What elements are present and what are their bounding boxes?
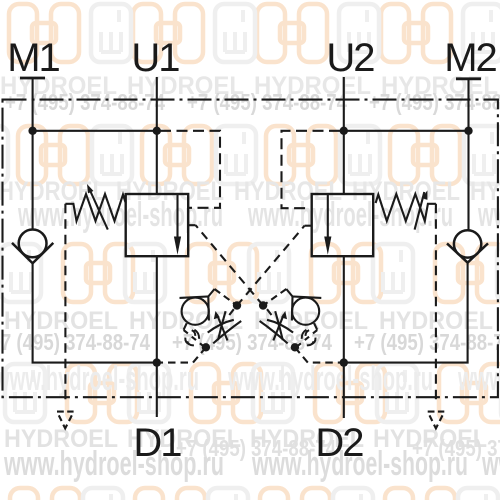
node S2 upper [259, 301, 267, 309]
wire CV2 to bottom [344, 263, 468, 363]
shuttle S2 orifice arc d [307, 341, 314, 345]
svg-text:www.hydroel-shop.ru: www.hydroel-shop.ru [457, 360, 500, 398]
shuttle S1 dashed path to node [184, 330, 204, 347]
wire top rail M1-U1 [33, 130, 157, 132]
shuttle S1 metering line [218, 311, 226, 340]
shuttle S2 seat [292, 297, 321, 321]
valve V1 spring [65, 194, 125, 221]
shuttle S2 orifice arc c [311, 338, 315, 345]
port bar M2 [456, 77, 481, 80]
pilot link S1 to D1 (dashed) [157, 347, 206, 362]
shuttle S2 node stub [267, 309, 272, 315]
shuttle S2 seat tail [286, 289, 292, 297]
wire top rail U2-M2 [344, 130, 469, 132]
wire CV1 to bottom [33, 263, 157, 362]
shuttle S2 pilot dash to node [263, 289, 286, 306]
valve V1 drain line (dashed) [64, 204, 66, 404]
valve V2 spring [376, 194, 436, 221]
wire U2 vertical upper [343, 77, 345, 194]
svg-text:D2: D2 [315, 421, 363, 465]
shuttle S1 orifice arc b [194, 330, 199, 339]
check valve CV2 seat [447, 243, 488, 262]
shuttle S2 restrictor arc b [260, 321, 288, 343]
svg-text:+7 (495) 374-88-74: +7 (495) 374-88-74 [0, 329, 150, 355]
port bar M1 [20, 77, 45, 80]
valve V1 spring adjust arrow [87, 184, 108, 230]
shuttle S1 restrictor arc a [208, 320, 234, 333]
svg-text:M1: M1 [7, 36, 59, 80]
valve V2 drain line (dashed) [435, 204, 437, 404]
junction D2 [340, 358, 348, 366]
valve V2 flow arrow [324, 194, 331, 255]
shuttle S1 orifice arc d [187, 341, 194, 345]
wire U1 vertical upper [156, 77, 158, 194]
svg-text:+7 (495) 374-88-74: +7 (495) 374-88-74 [354, 329, 500, 355]
shuttle S1 orifice arc a [192, 330, 196, 336]
junction M1 top [28, 127, 36, 135]
valve V2 spring adjust arrow [415, 190, 428, 229]
valve V1 drain triangle [57, 412, 74, 429]
check valve CV2 ball [454, 230, 481, 257]
valve V1 pilot stub [188, 224, 195, 226]
junction D1 [153, 358, 161, 366]
node S2 lower [291, 343, 299, 351]
wire U2 vertical lower [343, 256, 345, 418]
pilot line U1 to valve V1 (dashed) [160, 131, 220, 208]
counterbalance valve V1 body [126, 194, 189, 256]
svg-text:U2: U2 [326, 36, 374, 80]
shuttle S2 ball [292, 298, 319, 325]
shuttle S2 body link [314, 323, 317, 330]
shuttle S1 body link [184, 323, 187, 330]
svg-text:www.hydroel-shop.ru: www.hydroel-shop.ru [0, 360, 199, 398]
svg-text:+7 (495) 374-88-74: +7 (495) 374-88-74 [369, 89, 500, 115]
junction M2 top [464, 127, 472, 135]
svg-text:www.hydroel-shop.ru: www.hydroel-shop.ru [481, 445, 500, 483]
shuttle S2 dashed path to node [297, 330, 317, 347]
check valve CV1 ball [19, 230, 47, 258]
counterbalance valve V2 body [312, 194, 374, 256]
svg-text:D1: D1 [133, 421, 181, 465]
valve V2 pilot stub [305, 225, 312, 227]
svg-text:U1: U1 [131, 36, 179, 80]
pilot cross line V1 to right shuttle (dashed) [196, 225, 264, 305]
valve V1 flow arrow [174, 194, 181, 255]
wire U1 vertical lower [156, 256, 158, 417]
pilot cross line V2 to left shuttle (dashed) [237, 226, 305, 306]
shuttle S1 metering arrow [214, 311, 228, 341]
pilot link S2 to D2 (dashed) [295, 347, 344, 362]
svg-text:M2: M2 [444, 36, 496, 80]
node S1 upper [233, 301, 241, 309]
svg-text:www.hydroel-shop.ru: www.hydroel-shop.ru [477, 196, 500, 234]
shuttle S1 node stub [229, 309, 234, 315]
shuttle S2 metering arrow [273, 311, 287, 341]
svg-text:+7 (495) 374-88-74: +7 (495) 374-88-74 [5, 89, 165, 115]
shuttle S1 ball [182, 298, 209, 325]
shuttle S1 restrictor arc b [213, 321, 241, 343]
svg-text:+7 (495) 374-88-74: +7 (495) 374-88-74 [172, 329, 332, 355]
wire M2 vertical [467, 79, 469, 230]
valve V2 drain triangle [428, 412, 445, 429]
check valve CV1 seat [12, 243, 53, 263]
svg-text:www.hydroel-shop.ru: www.hydroel-shop.ru [3, 445, 224, 483]
shuttle S2 restrictor arc a [267, 320, 293, 333]
svg-text:www.hydroel-shop.ru: www.hydroel-shop.ru [227, 360, 433, 398]
junction U1 top [153, 127, 161, 135]
shuttle S1 seat [180, 297, 209, 321]
shuttle S2 orifice arc b [302, 330, 307, 339]
pilot line U2 to valve V2 (dashed) [282, 131, 341, 208]
svg-text:+7 (495) 374-88-74: +7 (495) 374-88-74 [187, 89, 347, 115]
shuttle S1 pilot dash to node [215, 289, 238, 306]
shuttle S1 orifice arc c [185, 338, 189, 345]
valve block boundary (dash-dot enclosure) [3, 100, 498, 398]
wire M1 vertical [32, 78, 34, 230]
shuttle S2 metering line [275, 311, 283, 340]
shuttle S2 orifice arc a [305, 330, 309, 336]
shuttle S1 seat tail [208, 289, 214, 297]
junction U2 top [340, 127, 348, 135]
node S1 lower [202, 343, 210, 351]
